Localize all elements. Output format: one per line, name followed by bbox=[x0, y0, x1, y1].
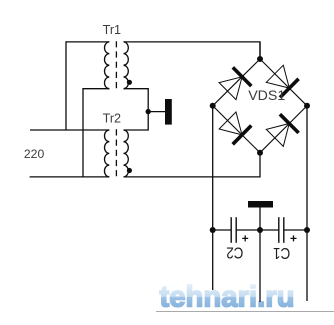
svg-text:Tr1: Tr1 bbox=[103, 23, 121, 37]
svg-text:VDS1: VDS1 bbox=[248, 88, 285, 104]
svg-text:C2: C2 bbox=[226, 244, 243, 261]
svg-text:tehnari.ru: tehnari.ru bbox=[160, 281, 295, 314]
svg-text:220: 220 bbox=[24, 147, 45, 161]
svg-text:Tr2: Tr2 bbox=[103, 112, 121, 126]
svg-text:C1: C1 bbox=[273, 244, 290, 261]
